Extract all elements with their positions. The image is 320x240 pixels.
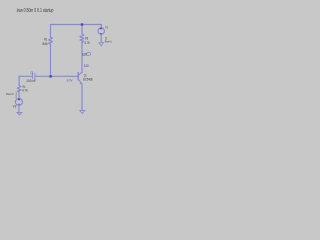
wire base rail left segment (corner to C1): [19, 75, 32, 77]
svg-text:LED: LED: [82, 53, 87, 57]
V1 minus sign: [100, 32, 102, 34]
svg-text:100 nF: 100 nF: [26, 79, 36, 83]
background: [0, 0, 119, 120]
svg-text:V2: V2: [13, 105, 17, 109]
wire V1 bottom lead: [100, 34, 102, 42]
resistor R4 body: [17, 86, 21, 93]
wire collector vertical lower (R2 to Q1 collector): [81, 42, 83, 72]
svg-text:84k: 84k: [42, 42, 47, 46]
svg-text:12V: 12V: [84, 64, 89, 68]
wire left branch vertical (corner to R4): [18, 76, 20, 85]
svg-text:V1: V1: [105, 26, 108, 30]
transistor Q1: [78, 72, 82, 84]
svg-text:Rser=1: Rser=1: [6, 92, 14, 96]
svg-text:C1: C1: [30, 71, 33, 75]
svg-text:4.7k: 4.7k: [22, 88, 28, 92]
ground below V1: [99, 43, 103, 46]
svg-text:2: 2: [15, 95, 17, 99]
Q1 emitter diagonal: [78, 79, 82, 84]
V2 plus sign: [18, 98, 20, 100]
svg-text:Rser=1: Rser=1: [105, 40, 112, 44]
V1 plus sign: [100, 27, 102, 29]
wire R4 to V2 lead: [18, 92, 20, 99]
ground below V2: [17, 113, 22, 116]
junction at collector / top rail: [81, 23, 83, 25]
V2 minus sign: [18, 103, 20, 105]
wire collector vertical upper (junction to R2): [81, 25, 83, 35]
Q1 collector diagonal: [78, 72, 82, 75]
wire base rail right segment (C1 to Q1 base): [35, 75, 78, 77]
wire top supply rail: [51, 24, 102, 26]
wire V1 top lead: [100, 25, 102, 29]
voltage source V2 circle: [15, 98, 22, 105]
svg-text:0.7V: 0.7V: [67, 79, 74, 83]
junction at base rail / R1: [49, 75, 51, 77]
svg-text:.tran 0 80m 0 0.1 startup: .tran 0 80m 0 0.1 startup: [16, 8, 54, 14]
ground below emitter: [80, 111, 85, 114]
resistor R1 body: [49, 37, 53, 45]
capacitor C1 plates: [32, 73, 35, 79]
voltage source V1 circle: [98, 28, 104, 34]
net flag oval beside LED label: [87, 52, 91, 55]
svg-text:4.7k: 4.7k: [84, 41, 90, 45]
wire emitter vertical: [81, 84, 83, 110]
resistor R2 body: [80, 34, 84, 42]
svg-text:R1: R1: [44, 38, 47, 42]
wire left vertical upper (rail corner to R1): [50, 25, 52, 38]
wire V2 bottom lead: [18, 105, 20, 112]
wire left vertical lower (R1 to base node): [50, 45, 52, 76]
svg-text:BC546B: BC546B: [83, 77, 93, 81]
Q1 base bar: [77, 73, 79, 80]
Q1 emitter arrow: [80, 82, 83, 85]
